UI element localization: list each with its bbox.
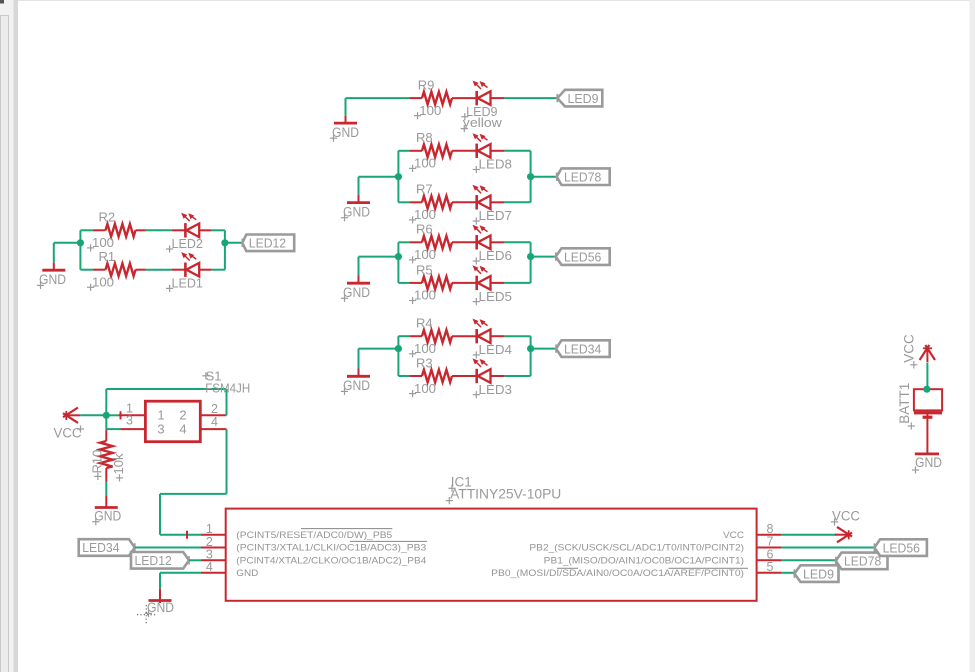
svg-text:4: 4 [211,415,218,429]
svg-text:LED9: LED9 [568,91,599,106]
svg-text:LED34: LED34 [564,341,601,356]
svg-text:R4: R4 [416,316,433,331]
svg-text:GND: GND [236,568,258,579]
svg-text:100: 100 [414,381,436,396]
svg-text:GND: GND [915,455,942,470]
svg-text:10k: 10k [111,453,126,474]
svg-text:LED9: LED9 [803,566,834,581]
svg-text:yellow: yellow [463,115,503,130]
svg-text:100: 100 [419,103,441,118]
svg-text:ATTINY25V-10PU: ATTINY25V-10PU [450,486,561,501]
svg-text:3: 3 [157,421,164,436]
svg-text:LED8: LED8 [479,157,513,172]
svg-text:LED4: LED4 [479,342,513,357]
svg-text:R2: R2 [99,210,116,225]
svg-text:LED78: LED78 [564,169,601,184]
svg-text:R5: R5 [416,262,433,277]
svg-text:LED1: LED1 [172,276,203,291]
svg-text:100: 100 [92,235,114,250]
svg-text:R9: R9 [418,78,435,93]
svg-text:LED78: LED78 [844,554,881,569]
svg-text:LED12: LED12 [135,553,172,568]
svg-text:LED12: LED12 [249,236,286,251]
svg-text:LED34: LED34 [82,540,119,555]
svg-text:R3: R3 [416,355,433,370]
svg-text:LED7: LED7 [479,208,513,223]
svg-text:(PCINT3/XTAL1/CLKI/OC1B/ADC3)_: (PCINT3/XTAL1/CLKI/OC1B/ADC3)_PB3 [236,543,426,554]
svg-text:PB2_(SCK/USCK/SCL/ADC1/T0/INT0: PB2_(SCK/USCK/SCL/ADC1/T0/INT0/PCINT2) [529,543,744,554]
svg-text:VCC: VCC [832,508,860,523]
svg-text:100: 100 [414,207,436,222]
svg-text:2: 2 [179,407,186,422]
svg-text:100: 100 [414,247,436,262]
svg-text:LED56: LED56 [564,249,601,264]
svg-text:(PCINT5/RESET/ADC0/DW)_PB5: (PCINT5/RESET/ADC0/DW)_PB5 [236,530,392,541]
svg-text:R1: R1 [99,249,116,264]
svg-text:VCC: VCC [902,334,917,363]
svg-text:LED3: LED3 [479,382,513,397]
svg-text:R7: R7 [416,182,433,197]
svg-text:LED6: LED6 [479,248,513,263]
svg-text:1: 1 [157,407,164,422]
svg-text:(PCINT4/XTAL2/CLKO/OC1B/ADC2)_: (PCINT4/XTAL2/CLKO/OC1B/ADC2)_PB4 [236,556,426,567]
svg-text:VCC: VCC [723,530,744,541]
svg-text:BATT1: BATT1 [897,383,912,424]
svg-text:3: 3 [126,414,133,428]
svg-text:100: 100 [92,275,114,290]
svg-text:LED2: LED2 [172,236,203,251]
svg-text:LED5: LED5 [479,289,513,304]
svg-text:FSM4JH: FSM4JH [205,381,250,396]
svg-text:5: 5 [767,560,774,574]
svg-text:100: 100 [414,156,436,171]
svg-text:PB0_(MOSI/DI/SDA/AIN0/OC0A/OC1: PB0_(MOSI/DI/SDA/AIN0/OC0A/OC1A/AREF/PCI… [491,568,744,579]
svg-text:4: 4 [206,560,213,574]
svg-text:100: 100 [414,341,436,356]
svg-text:R10: R10 [90,450,105,474]
svg-text:LED56: LED56 [883,540,920,555]
svg-text:4: 4 [179,421,186,436]
svg-text:R8: R8 [416,130,433,145]
svg-text:VCC: VCC [54,426,82,441]
svg-text:PB1_(MISO/DO/AIN1/OC0B/OC1A/PC: PB1_(MISO/DO/AIN1/OC0B/OC1A/PCINT1) [544,556,744,567]
svg-text:R6: R6 [416,222,433,237]
svg-text:100: 100 [414,288,436,303]
